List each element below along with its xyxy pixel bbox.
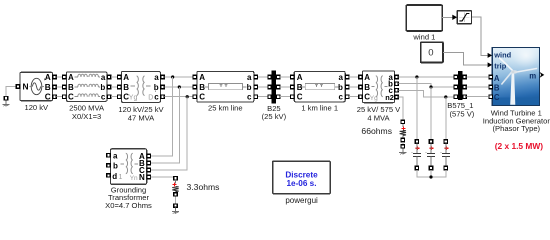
powergui block (Discrete 1e-06 s.) [273,161,331,205]
wire: tap a down to capacitor C1 [416,77,418,140]
saturation block [457,11,471,24]
wire: capacitor common neutral [417,170,446,177]
capacitor C2 [426,140,436,170]
voltage source block 120 kV [16,72,56,112]
junction node capacitor tap c [444,95,447,98]
capacitor C1 [411,140,421,170]
svg-text:47 MVA: 47 MVA [128,114,155,123]
svg-text:m: m [529,71,536,80]
svg-text:3.3ohms: 3.3ohms [187,182,220,192]
svg-text:120 kV: 120 kV [24,103,49,112]
junction node capacitor tap a [415,75,418,78]
svg-text:B: B [364,83,370,92]
transformer 120 kV/25 kV 47 MVA [118,72,165,123]
wire: bus B25 to 1 km line [280,77,292,97]
svg-text:A: A [494,74,500,83]
svg-text:Yn: Yn [130,175,138,182]
ground symbol for 66ohms [399,145,406,155]
transformer 2500 MVA X0/X1=3 [63,72,111,121]
wire: phase b to bus B575 (jog) [399,84,456,87]
svg-text:25 km line: 25 km line [208,104,243,113]
wire: phase a to bus B575 [399,76,456,78]
wire: source N to ground [6,87,16,97]
wire: n2 to grounding resistor 66ohms [399,97,403,120]
svg-text:1e-06 s.: 1e-06 s. [286,179,316,188]
svg-text:a: a [101,73,106,82]
junction node phase C tap [186,95,189,98]
svg-text:4 MVA: 4 MVA [367,114,390,123]
svg-text:n2: n2 [385,93,394,102]
wire: saturation to turbine wind input [472,17,492,58]
wire: grounding transformer N to 3.3ohms [151,175,176,178]
svg-text:A: A [123,73,129,82]
svg-text:C: C [199,93,205,102]
wire: phase c to bus B575 (jog) [399,90,456,97]
svg-text:120 kV/25 kV: 120 kV/25 kV [118,105,164,114]
junction node capacitor neutral [429,175,432,178]
wire: tap B down to grounding transformer port B [151,87,180,163]
junction node phase A tap [171,75,174,78]
wire: tap C down to grounding transformer port C [151,97,188,170]
svg-text:25 kV/ 575 V: 25 kV/ 575 V [357,105,401,114]
junction node phase B tap [178,85,181,88]
svg-text:c: c [247,93,252,102]
svg-text:B: B [68,83,74,92]
svg-text:0: 0 [428,48,433,59]
transformer 25 kV/575 V 4 MVA [357,71,401,123]
wire: transformer to 25 km line with taps to grounding transformer [165,77,193,97]
svg-text:a: a [338,73,343,82]
wire: 3.3ohms to ground [175,196,177,203]
svg-text:a: a [247,73,252,82]
svg-text:X0=4.7 Ohms: X0=4.7 Ohms [105,201,152,210]
capacitor C3 [440,140,450,170]
wind turbine block (Wind Turbine 1 Induction Generator) [483,48,550,151]
svg-text:B: B [123,83,129,92]
svg-text:A: A [45,72,51,82]
svg-text:D: D [148,94,153,101]
svg-text:(2 x 1.5 MW): (2 x 1.5 MW) [495,141,544,151]
resistor R 3.3ohms [172,177,219,197]
svg-text:N: N [23,82,29,92]
svg-text:N: N [139,173,145,182]
grounding transformer X0=4.7 Ohms [105,149,152,210]
svg-text:b: b [113,162,118,171]
svg-text:1 km line 1: 1 km line 1 [301,104,338,113]
svg-text:wind: wind [493,50,511,59]
ground for 3.3ohms [172,204,179,214]
svg-text:d: d [112,172,117,181]
svg-text:b: b [100,83,105,92]
wire: source to transformer 2500 MVA (3 phases) [57,77,63,97]
ground for 66ohms [402,142,404,145]
svg-text:A: A [199,73,205,82]
svg-text:C: C [45,92,51,102]
ground symbol (source neutral) [2,97,9,107]
svg-text:': ' [155,90,156,97]
svg-text:Yg: Yg [129,94,138,101]
bus bar B575_1 (575 V) [447,71,475,119]
svg-text:(Phasor Type): (Phasor Type) [493,124,541,133]
svg-text:c: c [101,93,106,102]
svg-text:b: b [338,83,343,92]
svg-text:(575 V): (575 V) [449,110,474,119]
svg-text:wind 1: wind 1 [412,32,435,41]
wire: 1 km line to 25kV/575V transformer [349,77,358,97]
junction node capacitor tap b [429,85,432,88]
svg-text:b: b [247,83,252,92]
svg-text:C: C [494,93,500,102]
wire: 25 km line to bus B25 [258,77,270,97]
svg-text:B575_1: B575_1 [447,101,473,110]
svg-text:B: B [45,82,51,92]
svg-text:a: a [154,73,159,82]
svg-text:A: A [297,73,303,82]
wire: bus B575 to wind turbine ABC [467,77,489,97]
svg-text:(25 kV): (25 kV) [262,112,287,121]
distributed line block 25 km line [193,71,257,112]
wire: tap c down to capacitor C3 [445,97,447,140]
svg-text:c: c [338,93,343,102]
svg-text:C: C [297,93,303,102]
wire: wind 1 to saturation [442,15,457,20]
svg-text:A: A [364,73,370,82]
svg-text:B: B [199,83,205,92]
source block wind 1 [406,5,442,41]
svg-text:66ohms: 66ohms [361,126,392,136]
distributed line block 1 km line 1 [291,71,349,112]
svg-text:powergui: powergui [285,196,318,205]
svg-text:B: B [297,83,303,92]
wire: 2500 MVA to 120kV/25kV transformer [111,77,117,97]
svg-text:X0/X1=3: X0/X1=3 [72,112,101,121]
svg-text:1: 1 [119,174,123,181]
svg-text:Yg: Yg [370,95,378,102]
wire: 0 to turbine trip input [443,53,492,68]
resistor R 66ohms (neutral grounding) [361,120,406,142]
svg-text:A: A [68,73,74,82]
svg-text:C: C [68,93,74,102]
constant block 0 (trip) [421,42,443,62]
svg-text:trip: trip [494,62,506,71]
wire: tap A down to grounding transformer port A [151,77,173,156]
wire: tap b down to capacitor C2 [430,87,432,140]
svg-text:B: B [494,84,500,93]
svg-text:a: a [113,152,118,161]
bus bar B25 (25 kV) [262,71,287,121]
svg-text:Discrete: Discrete [285,170,318,179]
